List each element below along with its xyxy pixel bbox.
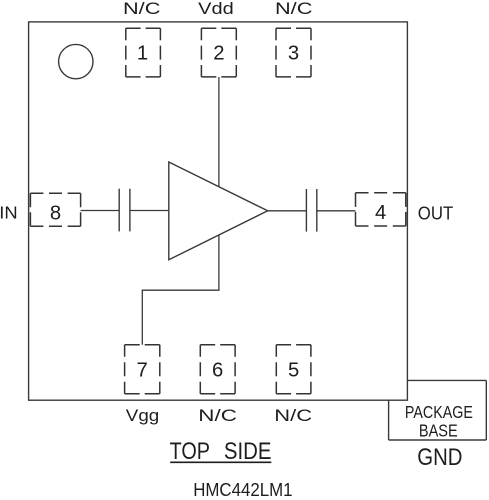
svg-text:TOP: TOP	[170, 438, 210, 465]
svg-text:7: 7	[137, 360, 148, 382]
svg-text:PACKAGE: PACKAGE	[405, 402, 473, 422]
pin 7 (dashed pad)	[125, 345, 160, 394]
pin 2 (dashed pad)	[201, 28, 236, 77]
wire U1 output to C2	[268, 210, 307, 212]
svg-text:N/C: N/C	[198, 406, 237, 425]
svg-text:8: 8	[50, 202, 61, 224]
pin 1 (dashed pad)	[126, 28, 161, 77]
svg-text:GND: GND	[417, 444, 462, 471]
pin 8 (dashed pad)	[30, 193, 80, 226]
wire pin8 to C1	[81, 210, 120, 212]
wire Vgg U1 to pin7	[142, 235, 219, 345]
wire C1 to U1 input	[130, 210, 169, 212]
pin 1 indicator circle	[59, 44, 93, 78]
svg-text:6: 6	[212, 360, 223, 382]
svg-text:BASE: BASE	[419, 421, 458, 441]
package outline	[29, 22, 408, 400]
svg-text:3: 3	[288, 43, 299, 65]
svg-text:N/C: N/C	[123, 0, 161, 18]
capacitor C2 (output blocking cap)	[306, 189, 316, 232]
package base box	[389, 380, 487, 440]
pin 4 (dashed pad)	[356, 193, 406, 226]
svg-text:N/C: N/C	[275, 0, 313, 18]
pin 5 (dashed pad)	[276, 345, 311, 394]
title TOP SIDE	[170, 438, 272, 465]
op-amp U1 (amplifier triangle)	[169, 162, 268, 260]
svg-text:HMC442LM1: HMC442LM1	[193, 480, 292, 500]
wire Vdd pin2 to U1	[218, 77, 220, 187]
pin 3 (dashed pad)	[276, 28, 311, 77]
svg-text:Vdd: Vdd	[198, 0, 234, 18]
svg-text:OUT: OUT	[418, 202, 453, 223]
svg-text:2: 2	[213, 43, 224, 65]
svg-text:4: 4	[375, 202, 386, 224]
wire C2 to pin4	[317, 210, 356, 212]
svg-text:5: 5	[288, 360, 299, 382]
svg-text:1: 1	[137, 43, 148, 65]
capacitor C1 (input blocking cap)	[119, 189, 130, 232]
svg-text:SIDE: SIDE	[224, 438, 272, 465]
svg-text:IN: IN	[0, 203, 18, 223]
svg-text:N/C: N/C	[274, 406, 312, 425]
pin 6 (dashed pad)	[200, 345, 235, 394]
svg-text:Vgg: Vgg	[126, 406, 159, 425]
